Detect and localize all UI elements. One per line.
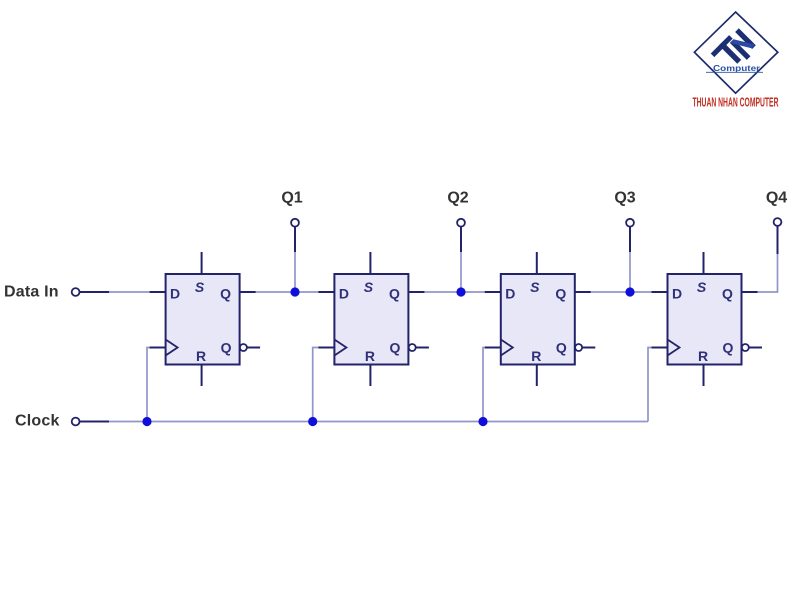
junction clock at FF3 riser	[478, 417, 487, 426]
svg-text:Q1: Q1	[281, 190, 302, 207]
terminal Q2 stub	[460, 227, 462, 253]
wire: terminal Q2 riser to data line	[460, 252, 462, 292]
terminal Q2	[457, 219, 465, 227]
wire: Data In to FF1 D	[80, 291, 150, 293]
terminal Q3	[626, 219, 634, 227]
svg-text:Data In: Data In	[4, 284, 59, 301]
svg-text:THUAN NHAN COMPUTER: THUAN NHAN COMPUTER	[693, 95, 779, 110]
wire: terminal Q1 riser to data line	[294, 252, 296, 292]
terminal Q3 stub	[629, 227, 631, 253]
wire: clock riser to FF3 CLK	[483, 348, 486, 422]
wire: clock bus horizontal	[80, 421, 648, 423]
terminal Q4 stub	[777, 227, 779, 255]
D flip-flop U4	[652, 252, 763, 386]
terminal Q1	[291, 219, 299, 227]
wire: FF2 Q to FF3 D (through node Q2)	[424, 291, 486, 293]
wire: FF4 Q up to terminal Q4	[757, 252, 778, 292]
terminal Data In	[72, 288, 80, 296]
D flip-flop U3	[485, 252, 596, 386]
terminal Q4	[774, 218, 782, 226]
svg-text:Computer: Computer	[713, 63, 761, 73]
terminal Clock	[72, 418, 80, 426]
svg-text:Q2: Q2	[447, 190, 468, 207]
wire: terminal Q3 riser to data line	[629, 252, 631, 292]
junction on node Q1	[290, 287, 299, 296]
svg-text:Q4: Q4	[766, 190, 787, 207]
wire: clock riser to FF4 CLK	[648, 348, 652, 422]
logo monogram TN	[711, 27, 759, 75]
svg-text:Clock: Clock	[15, 413, 60, 430]
terminal Q1 stub	[294, 227, 296, 253]
junction on node Q3	[625, 287, 634, 296]
terminal Data In stub	[80, 291, 110, 293]
logo underline	[706, 71, 763, 73]
T	[711, 35, 733, 57]
N	[730, 39, 751, 60]
svg-text:Q3: Q3	[614, 190, 635, 207]
wire: FF3 Q to FF4 D (through node Q3)	[591, 291, 652, 293]
junction on node Q2	[456, 287, 465, 296]
wire: clock riser to FF2 CLK	[313, 348, 319, 422]
junction clock at FF1 riser	[142, 417, 151, 426]
wire: FF1 Q to FF2 D (through node Q1)	[255, 291, 319, 293]
logo diamond border	[694, 12, 777, 93]
D flip-flop U2	[318, 252, 429, 386]
D flip-flop U1	[150, 252, 261, 386]
terminal Clock stub	[80, 421, 110, 423]
wire: clock riser to FF1 CLK	[147, 348, 150, 422]
junction clock at FF2 riser	[308, 417, 317, 426]
